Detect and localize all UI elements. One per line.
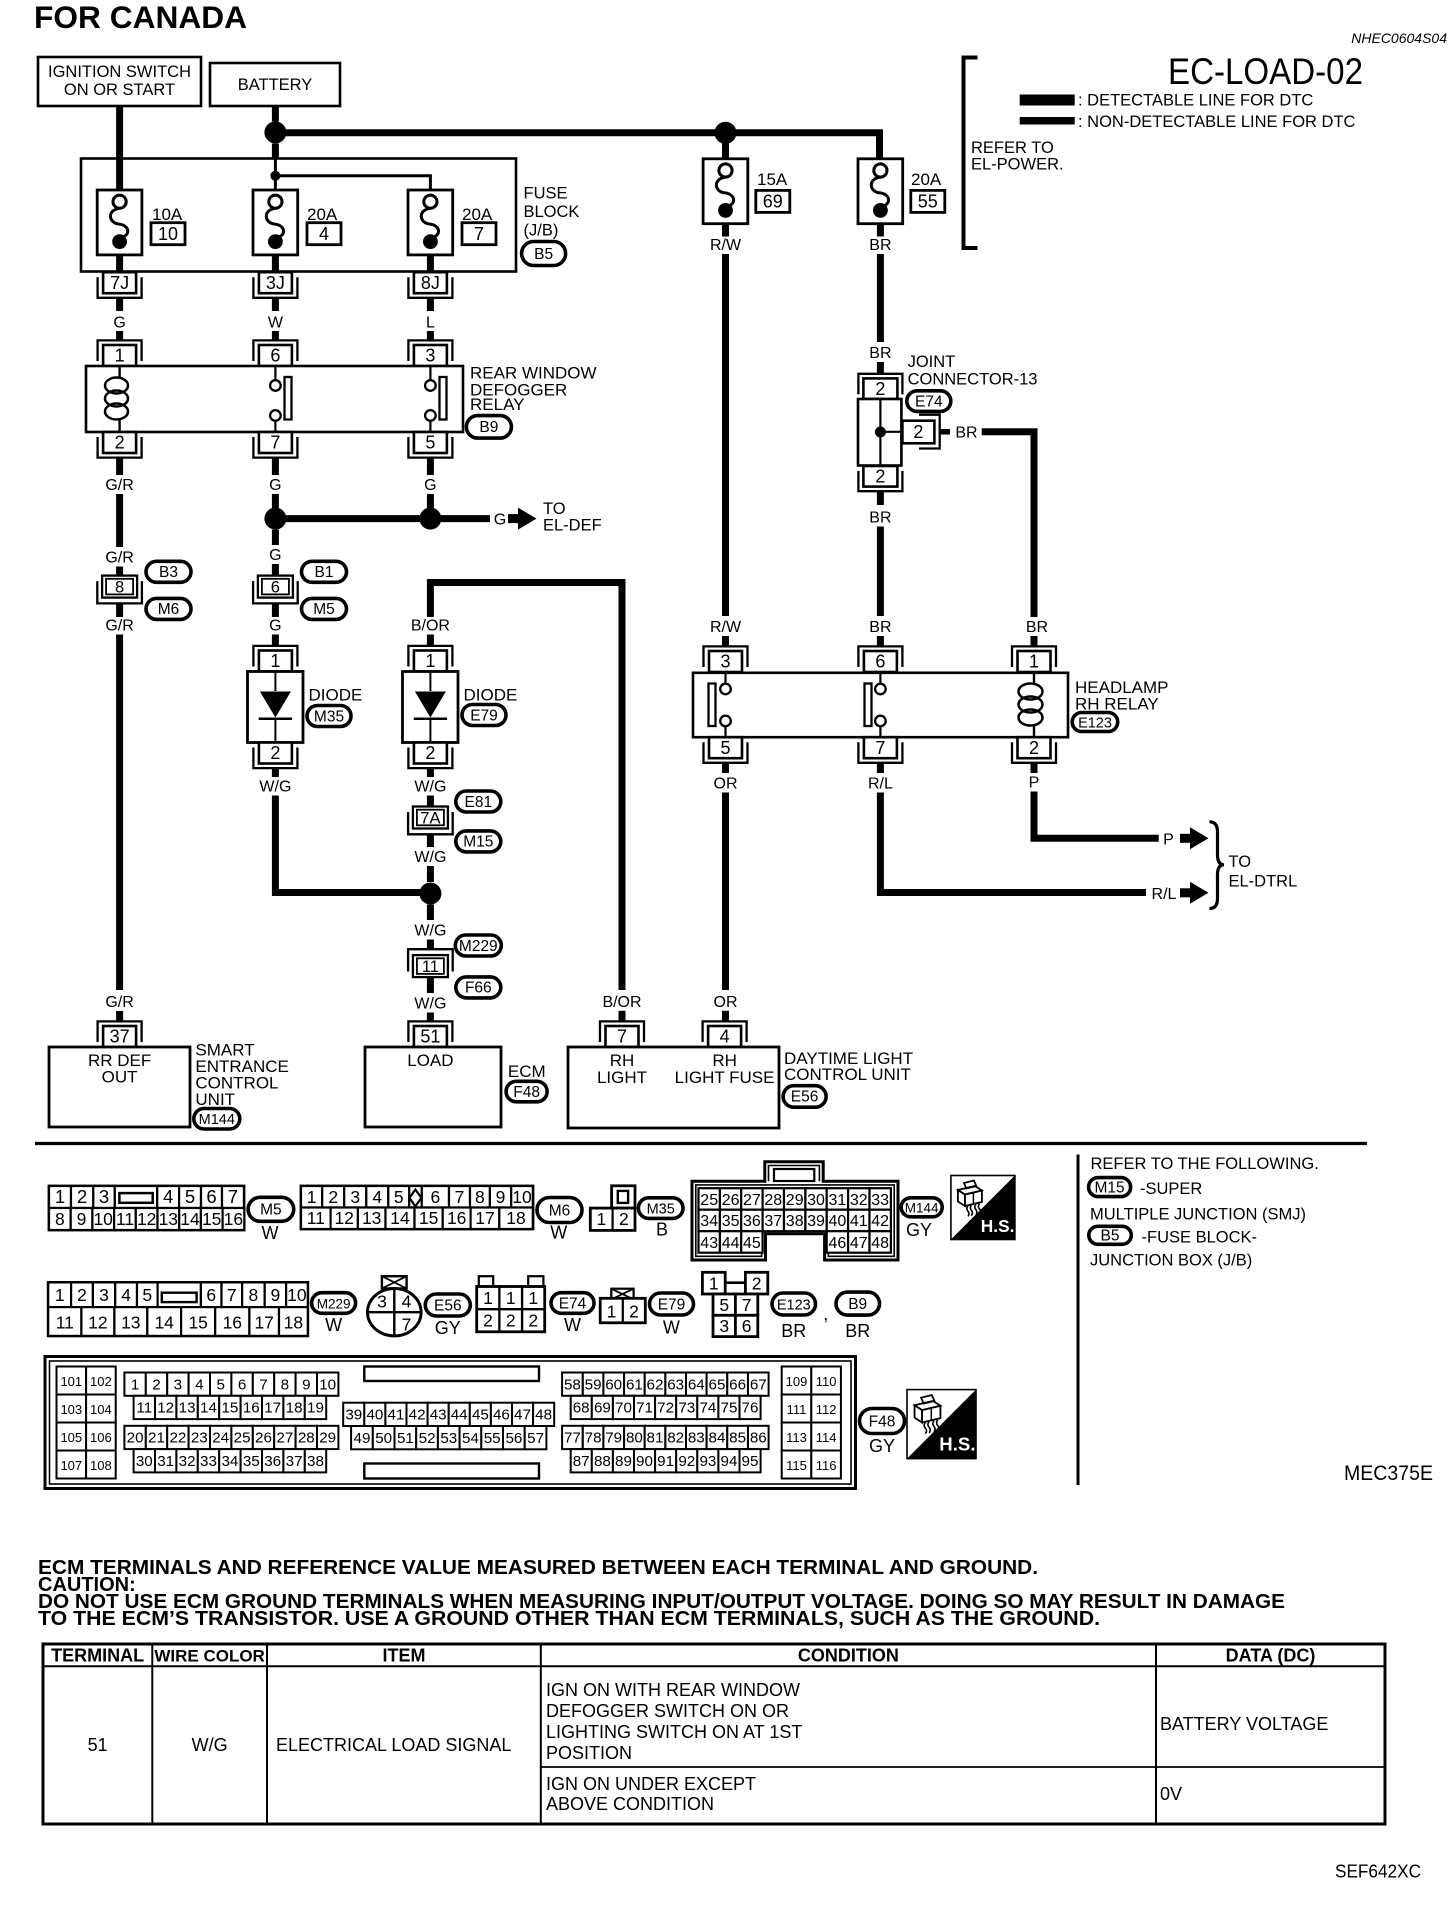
svg-text:15A: 15A xyxy=(757,170,788,189)
svg-text:JOINT: JOINT xyxy=(908,353,956,371)
svg-text:83: 83 xyxy=(688,1430,705,1447)
svg-text:4: 4 xyxy=(319,224,329,244)
svg-text:G/R: G/R xyxy=(105,550,133,567)
svg-text:28: 28 xyxy=(764,1192,782,1209)
svg-text:16: 16 xyxy=(447,1208,466,1228)
arrow to EL-DEF xyxy=(508,514,519,523)
svg-text:26: 26 xyxy=(255,1430,272,1447)
svg-text:R/W: R/W xyxy=(710,237,742,254)
svg-text:102: 102 xyxy=(90,1374,112,1389)
wire BR below E74 xyxy=(877,492,884,506)
svg-text:86: 86 xyxy=(750,1430,767,1447)
wire BR side tap xyxy=(940,429,950,435)
svg-text:3: 3 xyxy=(719,1316,729,1336)
svg-text:7: 7 xyxy=(259,1376,267,1393)
fuse block J/B box xyxy=(81,159,516,272)
svg-text:14: 14 xyxy=(154,1313,174,1333)
wire R/W fuse 69 down xyxy=(722,224,729,237)
svg-text:2: 2 xyxy=(875,467,885,487)
svg-text:ON OR START: ON OR START xyxy=(64,81,175,99)
svg-text:M229: M229 xyxy=(459,938,498,955)
svg-text:3: 3 xyxy=(720,652,730,672)
F48 cells 20-38 xyxy=(124,1426,145,1449)
svg-text:101: 101 xyxy=(60,1374,82,1389)
svg-text:B/OR: B/OR xyxy=(602,994,641,1011)
svg-text:20: 20 xyxy=(127,1430,144,1447)
svg-text:6: 6 xyxy=(206,1285,216,1305)
svg-text:50: 50 xyxy=(375,1430,392,1447)
svg-text:25: 25 xyxy=(234,1430,251,1447)
svg-text:16: 16 xyxy=(224,1209,243,1229)
legend detectable line for DTC xyxy=(1020,95,1075,106)
fuse 20A no.4 xyxy=(253,190,298,255)
connector B5 xyxy=(522,242,566,266)
svg-text:5: 5 xyxy=(142,1285,152,1305)
svg-text:63: 63 xyxy=(667,1376,684,1393)
svg-text:,: , xyxy=(823,1304,828,1324)
connector F66 xyxy=(456,977,501,998)
node W/G junction xyxy=(419,883,441,905)
svg-text:49: 49 xyxy=(354,1430,371,1447)
svg-text:RH RELAY: RH RELAY xyxy=(1075,695,1159,714)
svg-text:43: 43 xyxy=(430,1407,447,1424)
svg-text:10: 10 xyxy=(93,1209,113,1229)
svg-text:6: 6 xyxy=(271,579,280,597)
pin 8J xyxy=(408,277,452,298)
svg-text:44: 44 xyxy=(451,1407,468,1424)
svg-text:TO: TO xyxy=(1229,853,1252,871)
svg-text:10: 10 xyxy=(319,1376,336,1393)
svg-text:65: 65 xyxy=(709,1376,726,1393)
connector view E56 xyxy=(382,1276,407,1288)
svg-text:G/R: G/R xyxy=(105,618,133,635)
node G junction col C xyxy=(419,508,441,530)
connector E123 xyxy=(1072,713,1118,732)
svg-text:37: 37 xyxy=(110,1027,130,1047)
svg-text:2: 2 xyxy=(483,1311,493,1331)
wire R/L relay pin7 to arrow xyxy=(877,763,884,773)
wire fuse7 to 8J xyxy=(427,255,434,273)
svg-text:MEC375E: MEC375E xyxy=(1344,1461,1433,1485)
F48 cells 109-116 xyxy=(782,1367,812,1395)
wire to fuse 20A-4 xyxy=(274,176,277,197)
svg-text:SEF642XC: SEF642XC xyxy=(1335,1862,1421,1882)
svg-text:90: 90 xyxy=(636,1453,653,1470)
svg-text:59: 59 xyxy=(585,1376,602,1393)
daytime light control unit box E56 xyxy=(600,1021,644,1042)
svg-text:3: 3 xyxy=(425,346,435,366)
svg-text:40: 40 xyxy=(829,1213,847,1230)
svg-text:43: 43 xyxy=(700,1235,718,1252)
svg-text:TO THE ECM’S TRANSISTOR. USE: TO THE ECM’S TRANSISTOR. USE A GROUND OT… xyxy=(38,1608,1100,1630)
svg-text:1: 1 xyxy=(115,346,125,366)
F48 cells 101-108 xyxy=(57,1367,87,1395)
svg-text:GY: GY xyxy=(435,1318,461,1338)
svg-text:37: 37 xyxy=(764,1213,782,1230)
svg-text:EC-LOAD-02: EC-LOAD-02 xyxy=(1168,51,1363,92)
svg-text:51: 51 xyxy=(397,1430,414,1447)
diode E79 xyxy=(408,646,452,667)
svg-text:39: 39 xyxy=(807,1213,825,1230)
wire fuse10 to 7J xyxy=(116,255,123,273)
svg-text:27: 27 xyxy=(276,1430,293,1447)
wire fuse4 to 3J xyxy=(272,255,279,273)
svg-text:M15: M15 xyxy=(1095,1179,1125,1196)
wire battery junction to fuse block xyxy=(272,144,279,159)
svg-text:G/R: G/R xyxy=(105,477,133,494)
svg-text:64: 64 xyxy=(688,1376,705,1393)
svg-text:UNIT: UNIT xyxy=(195,1090,235,1109)
connector view E123 xyxy=(702,1272,725,1294)
wire down to 15A fuse 69 xyxy=(722,133,729,159)
svg-text:45: 45 xyxy=(472,1407,489,1424)
svg-text:3: 3 xyxy=(377,1292,387,1312)
svg-text:DEFOGGER SWITCH ON OR: DEFOGGER SWITCH ON OR xyxy=(546,1701,789,1721)
svg-text:G: G xyxy=(494,512,506,529)
svg-text:E74: E74 xyxy=(559,1295,587,1312)
svg-text:10: 10 xyxy=(158,224,178,244)
node inside fuse block xyxy=(270,171,280,181)
svg-text:48: 48 xyxy=(535,1407,552,1424)
vertical divider xyxy=(1077,1155,1080,1486)
svg-text:6: 6 xyxy=(431,1187,441,1207)
connector B9 xyxy=(466,416,511,439)
svg-text:DIODE: DIODE xyxy=(309,686,363,705)
svg-text:B5: B5 xyxy=(1101,1228,1120,1245)
svg-text:1: 1 xyxy=(270,651,280,671)
svg-text:21: 21 xyxy=(148,1430,165,1447)
svg-text:W/G: W/G xyxy=(259,779,291,796)
relay bottom pins xyxy=(98,437,142,458)
arrow R/L to EL-DTRL xyxy=(1180,888,1191,897)
svg-text:1: 1 xyxy=(607,1302,617,1322)
svg-text:F48: F48 xyxy=(513,1084,540,1101)
connector B1 xyxy=(302,561,347,582)
svg-text:4: 4 xyxy=(121,1285,131,1305)
svg-text:94: 94 xyxy=(721,1453,738,1470)
svg-text:4: 4 xyxy=(402,1292,412,1312)
svg-text:20A: 20A xyxy=(307,205,338,224)
svg-text:51: 51 xyxy=(88,1735,108,1755)
svg-text:46: 46 xyxy=(493,1407,510,1424)
svg-text:67: 67 xyxy=(750,1376,767,1393)
svg-text:M229: M229 xyxy=(317,1296,351,1311)
svg-text:114: 114 xyxy=(816,1430,837,1445)
svg-text:40: 40 xyxy=(366,1407,383,1424)
svg-text:87: 87 xyxy=(573,1453,590,1470)
svg-text:8: 8 xyxy=(115,579,124,597)
svg-text:E123: E123 xyxy=(1078,715,1112,731)
relay bottom pins xyxy=(704,742,748,763)
svg-text:107: 107 xyxy=(60,1458,82,1473)
wire G to diode M35 xyxy=(272,603,279,617)
svg-text:OR: OR xyxy=(714,776,738,793)
svg-text:105: 105 xyxy=(60,1430,82,1445)
svg-text:27: 27 xyxy=(743,1192,761,1209)
svg-text:0V: 0V xyxy=(1160,1784,1182,1804)
svg-text:ECM TERMINALS AND REFERENCE VA: ECM TERMINALS AND REFERENCE VALUE MEASUR… xyxy=(38,1557,1038,1579)
svg-text:30: 30 xyxy=(807,1192,825,1209)
svg-text:70: 70 xyxy=(615,1400,632,1417)
svg-text:16: 16 xyxy=(223,1313,242,1333)
svg-text:W: W xyxy=(262,1223,279,1243)
svg-text:2: 2 xyxy=(270,743,280,763)
svg-text:P: P xyxy=(1029,775,1040,792)
svg-text:92: 92 xyxy=(678,1453,695,1470)
svg-text:M35: M35 xyxy=(647,1201,675,1217)
svg-text:5: 5 xyxy=(394,1187,404,1207)
svg-text:W: W xyxy=(268,315,284,332)
svg-text:2: 2 xyxy=(752,1274,762,1294)
svg-text:R/L: R/L xyxy=(868,776,893,793)
svg-text:W: W xyxy=(550,1223,567,1243)
svg-text:4: 4 xyxy=(195,1376,203,1393)
svg-text:9: 9 xyxy=(271,1285,281,1305)
svg-text:OUT: OUT xyxy=(102,1068,138,1087)
svg-text:26: 26 xyxy=(722,1192,740,1209)
svg-text:60: 60 xyxy=(605,1376,622,1393)
node battery junction xyxy=(264,121,286,143)
svg-text:2: 2 xyxy=(629,1302,639,1322)
svg-text:7: 7 xyxy=(474,224,484,244)
svg-text:11: 11 xyxy=(136,1400,152,1417)
E74 bottom pin 2 xyxy=(858,471,902,491)
connector M229 xyxy=(455,935,501,956)
svg-text:71: 71 xyxy=(636,1400,653,1417)
svg-text:69: 69 xyxy=(594,1400,611,1417)
svg-text:6: 6 xyxy=(742,1316,752,1336)
svg-text:18: 18 xyxy=(286,1400,303,1417)
wire G junction to EL-DEF arrow xyxy=(286,515,424,522)
svg-text:17: 17 xyxy=(254,1313,273,1333)
wire W/G from diode M35 xyxy=(272,768,279,777)
svg-text:3: 3 xyxy=(350,1187,360,1207)
connector view M144 xyxy=(692,1162,898,1260)
svg-text:36: 36 xyxy=(264,1453,281,1470)
svg-text:7: 7 xyxy=(270,433,280,453)
svg-text:1: 1 xyxy=(597,1209,607,1229)
svg-text:7: 7 xyxy=(402,1315,412,1335)
svg-text:7: 7 xyxy=(742,1295,752,1315)
svg-text:3: 3 xyxy=(174,1376,182,1393)
wire battery inside block thin xyxy=(274,159,277,172)
svg-text:ELECTRICAL LOAD SIGNAL: ELECTRICAL LOAD SIGNAL xyxy=(276,1735,511,1755)
svg-text:H.S.: H.S. xyxy=(939,1434,975,1455)
svg-text:79: 79 xyxy=(605,1430,622,1447)
svg-text:56: 56 xyxy=(505,1430,522,1447)
svg-text:M144: M144 xyxy=(905,1201,939,1216)
relay coil pins 1-2 xyxy=(118,366,120,377)
svg-text:BR: BR xyxy=(845,1321,870,1341)
wire battery feed to right fuses xyxy=(275,133,879,159)
svg-text:13: 13 xyxy=(121,1313,140,1333)
svg-text:115: 115 xyxy=(786,1458,807,1473)
svg-text:B1: B1 xyxy=(315,564,334,581)
svg-text:W/G: W/G xyxy=(414,996,446,1013)
svg-text:24: 24 xyxy=(212,1430,229,1447)
svg-text:F66: F66 xyxy=(465,980,492,997)
svg-text:42: 42 xyxy=(409,1407,426,1424)
svg-text:2: 2 xyxy=(77,1285,87,1305)
svg-text:8: 8 xyxy=(249,1285,259,1305)
wire B/OR feed horizontal to DLCU pin 7 xyxy=(430,583,622,991)
wire W/G to ECM pin 51 xyxy=(427,977,434,993)
wire P relay pin2 to arrow xyxy=(1031,763,1038,773)
svg-text:IGNITION SWITCH: IGNITION SWITCH xyxy=(48,63,191,81)
svg-text:FOR CANADA: FOR CANADA xyxy=(34,0,247,35)
svg-text:106: 106 xyxy=(90,1430,112,1445)
svg-text:EL-POWER.: EL-POWER. xyxy=(971,156,1064,174)
svg-text:CONTROL UNIT: CONTROL UNIT xyxy=(784,1065,911,1084)
svg-text:B9: B9 xyxy=(848,1296,867,1313)
pin 7J xyxy=(98,277,142,298)
svg-text:M6: M6 xyxy=(549,1202,571,1219)
wire G junction down xyxy=(272,530,279,545)
svg-text:M6: M6 xyxy=(158,601,180,618)
svg-text:M35: M35 xyxy=(314,708,344,725)
wire G/R pin2 down xyxy=(116,458,123,475)
svg-text:66: 66 xyxy=(729,1376,746,1393)
joint connector-13 E74 xyxy=(858,374,902,395)
svg-text:15: 15 xyxy=(221,1400,238,1417)
svg-text:10: 10 xyxy=(287,1285,307,1305)
fuse 20A no.55 xyxy=(858,159,903,224)
connector E81 xyxy=(456,791,501,812)
svg-text:110: 110 xyxy=(816,1374,837,1389)
svg-text:52: 52 xyxy=(419,1430,436,1447)
svg-text:85: 85 xyxy=(729,1430,746,1447)
svg-text:12: 12 xyxy=(88,1313,107,1333)
svg-text:108: 108 xyxy=(90,1458,112,1473)
svg-text:37: 37 xyxy=(286,1453,303,1470)
svg-text:11: 11 xyxy=(307,1208,325,1228)
svg-text:103: 103 xyxy=(60,1402,82,1417)
svg-text:3: 3 xyxy=(99,1186,109,1207)
connector M144 xyxy=(194,1109,240,1130)
svg-text:-FUSE BLOCK-: -FUSE BLOCK- xyxy=(1142,1229,1258,1247)
svg-text:6: 6 xyxy=(238,1376,246,1393)
wire 3J to relay pin6, label W xyxy=(272,298,279,312)
svg-text:2: 2 xyxy=(77,1186,87,1207)
svg-text:LIGHT: LIGHT xyxy=(597,1068,647,1087)
svg-text:BR: BR xyxy=(869,237,891,254)
svg-text:3J: 3J xyxy=(266,273,285,293)
svg-text:W: W xyxy=(663,1317,680,1337)
svg-text:33: 33 xyxy=(200,1453,217,1470)
svg-text:4: 4 xyxy=(372,1187,382,1207)
svg-text:91: 91 xyxy=(657,1453,674,1470)
svg-text:73: 73 xyxy=(678,1400,695,1417)
connector F48 xyxy=(860,1409,905,1434)
brace to EL-DTRL xyxy=(1210,822,1225,909)
svg-text:22: 22 xyxy=(169,1430,186,1447)
svg-text:29: 29 xyxy=(319,1430,336,1447)
F48 cells 58-76 xyxy=(562,1373,583,1396)
svg-text:ABOVE CONDITION: ABOVE CONDITION xyxy=(546,1794,714,1814)
wire inside block to fuse 20A-7 xyxy=(275,176,430,197)
H.S. logo M144 xyxy=(951,1176,1015,1240)
svg-text:55: 55 xyxy=(484,1430,501,1447)
svg-text:11: 11 xyxy=(422,958,439,976)
svg-text:19: 19 xyxy=(307,1400,324,1417)
node G junction to EL-DEF xyxy=(264,508,286,530)
svg-text:ITEM: ITEM xyxy=(383,1646,426,1666)
svg-text:REFER TO THE FOLLOWING.: REFER TO THE FOLLOWING. xyxy=(1091,1155,1319,1173)
svg-text:R/L: R/L xyxy=(1152,886,1177,903)
svg-text:BR: BR xyxy=(955,425,977,442)
relay contact pins 3-5 xyxy=(724,673,726,684)
svg-text:CONDITION: CONDITION xyxy=(798,1646,899,1666)
connector view F48 ECM xyxy=(45,1357,856,1489)
wire BR to headlamp relay pin1 xyxy=(982,432,1034,617)
svg-text:20A: 20A xyxy=(911,170,942,189)
svg-text:13: 13 xyxy=(179,1400,196,1417)
relay coil pins 1-2 xyxy=(1033,673,1035,683)
svg-text:E56: E56 xyxy=(791,1089,819,1106)
svg-text:E123: E123 xyxy=(777,1297,811,1313)
svg-text:45: 45 xyxy=(743,1235,761,1252)
svg-text:BATTERY: BATTERY xyxy=(238,76,313,94)
svg-text:BATTERY VOLTAGE: BATTERY VOLTAGE xyxy=(1160,1714,1328,1734)
svg-text:34: 34 xyxy=(700,1213,718,1230)
svg-text:2: 2 xyxy=(875,379,885,399)
connector view B9 xyxy=(836,1292,880,1315)
bracket refer to EL-POWER xyxy=(964,58,978,249)
svg-text:10: 10 xyxy=(512,1187,532,1207)
connector view M6 xyxy=(301,1186,533,1229)
smart entrance control unit box M144 xyxy=(98,1021,142,1042)
svg-text:18: 18 xyxy=(284,1313,303,1333)
svg-text:1: 1 xyxy=(483,1288,493,1308)
svg-text:1: 1 xyxy=(55,1285,65,1305)
svg-text:B: B xyxy=(656,1220,668,1240)
svg-text:12: 12 xyxy=(334,1208,353,1228)
svg-text:2: 2 xyxy=(115,433,125,453)
connector view E74 xyxy=(479,1276,493,1286)
connector view M35 xyxy=(612,1186,635,1208)
svg-text:9: 9 xyxy=(77,1209,87,1229)
svg-text:57: 57 xyxy=(527,1430,544,1447)
svg-text:34: 34 xyxy=(221,1453,238,1470)
svg-text:EL-DEF: EL-DEF xyxy=(543,517,602,535)
legend non-detectable line for DTC xyxy=(1020,117,1075,125)
svg-text:32: 32 xyxy=(850,1192,868,1209)
svg-text:ECM: ECM xyxy=(508,1062,546,1081)
svg-text:17: 17 xyxy=(264,1400,281,1417)
wire W/G below 7A xyxy=(427,834,434,847)
svg-text:88: 88 xyxy=(594,1453,611,1470)
svg-text:B9: B9 xyxy=(479,419,498,436)
svg-text:BR: BR xyxy=(869,619,891,636)
svg-text:89: 89 xyxy=(615,1453,632,1470)
svg-text:69: 69 xyxy=(763,192,783,212)
svg-text:M5: M5 xyxy=(313,601,335,618)
svg-text:IGN ON WITH REAR WINDOW: IGN ON WITH REAR WINDOW xyxy=(546,1680,800,1700)
svg-text:15: 15 xyxy=(419,1208,438,1228)
svg-text:2: 2 xyxy=(1029,738,1039,758)
svg-text:9: 9 xyxy=(302,1376,310,1393)
wire ignition switch to fuse block xyxy=(116,106,123,160)
svg-text:14: 14 xyxy=(180,1209,200,1229)
inline connector 11 M229/F66 xyxy=(408,949,453,971)
svg-text:E79: E79 xyxy=(470,707,498,724)
svg-text:42: 42 xyxy=(871,1213,889,1230)
svg-text:58: 58 xyxy=(564,1376,581,1393)
svg-text:CONNECTOR-13: CONNECTOR-13 xyxy=(908,371,1038,389)
svg-text:7: 7 xyxy=(227,1285,237,1305)
F48 cells 39-57 xyxy=(343,1403,364,1426)
svg-text:NHEC0604S04: NHEC0604S04 xyxy=(1351,30,1447,46)
